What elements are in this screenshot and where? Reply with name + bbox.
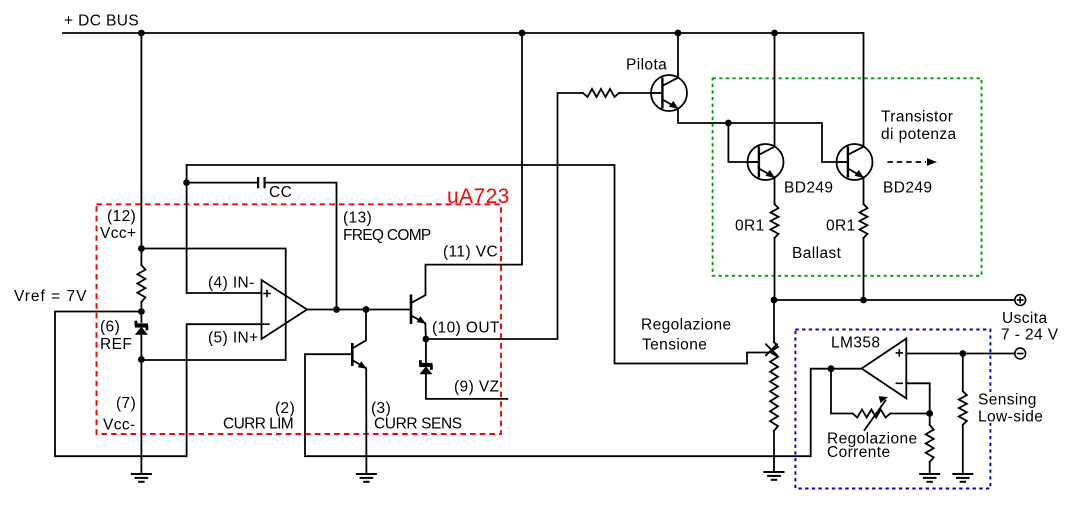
wire Vcc+ node loop right	[141, 249, 285, 361]
svg-text:Low-side: Low-side	[978, 409, 1043, 426]
zener diode REF (pin 6)	[135, 321, 148, 335]
svg-text:Vcc-: Vcc-	[103, 417, 136, 434]
svg-text:Regolazione: Regolazione	[641, 317, 732, 334]
resistor Sensing Low-side	[959, 391, 967, 425]
wire CC cap left lead	[187, 182, 259, 184]
wire Q1 collector to VC pin 11 and bus	[426, 33, 523, 295]
svg-text:Ballast: Ballast	[792, 245, 842, 262]
op-amp U2 LM358	[862, 339, 907, 399]
svg-text:Transistor: Transistor	[881, 109, 953, 126]
svg-text:0R1: 0R1	[826, 218, 856, 235]
ground below current pot resistor	[919, 474, 940, 482]
svg-text:REF: REF	[100, 336, 132, 353]
terminal Uscita +	[1015, 295, 1026, 306]
svg-text:CURR LIM: CURR LIM	[223, 416, 293, 433]
svg-text:(12): (12)	[107, 208, 136, 225]
wire VZ zener to pin 9 stub	[426, 375, 508, 399]
label Sensing Low-side	[974, 392, 1042, 406]
svg-text:uA723: uA723	[447, 185, 510, 208]
wire branch to BD249 no.1 base	[728, 123, 759, 162]
wire pot node down to resistor	[929, 414, 931, 426]
wire Vcc+ column from bus to resistor	[140, 33, 142, 265]
wire ballast no.2 to output rail	[863, 238, 865, 300]
svg-text:FREQ COMP: FREQ COMP	[343, 227, 431, 244]
wire OUT node down to VZ zener	[425, 339, 427, 362]
wire IN- top run to output sense	[187, 165, 769, 364]
svg-text:Uscita: Uscita	[1002, 310, 1047, 327]
svg-text:Vref = 7V: Vref = 7V	[14, 288, 87, 305]
wire resistor to ground	[929, 462, 931, 474]
terminal Uscita -	[1015, 348, 1026, 359]
node junction dots	[138, 30, 966, 417]
wire CURR LIM base to bottom rail	[305, 354, 811, 456]
svg-text:0R1: 0R1	[735, 218, 765, 235]
wire output rail to + terminal	[774, 299, 1015, 301]
svg-text:Pilota: Pilota	[626, 57, 667, 74]
Ballast power-transistor boundary box (green dashed)	[713, 78, 982, 275]
wire output divider upper	[773, 300, 775, 342]
resistor Regolazione Corrente pot	[853, 410, 891, 418]
svg-text:(11) VC: (11) VC	[443, 244, 498, 261]
wire Q1 emitter to OUT node	[424, 323, 427, 339]
wire REF zener down to ground	[140, 335, 142, 474]
transistor Pilota driver	[651, 75, 687, 111]
svg-text:(10) OUT: (10) OUT	[432, 320, 500, 337]
dashed arrow transistor di potenza	[887, 161, 926, 163]
wire ballast no.1 to output rail	[774, 238, 776, 300]
ground below sensing resistor	[952, 474, 973, 482]
svg-text:(6): (6)	[100, 319, 120, 336]
pot tap X marker	[766, 344, 777, 355]
wire LM358 feedback down to pot	[831, 369, 853, 414]
wire IN+ (pin 5) vertical and to op-amp	[187, 324, 262, 456]
wire LM358 + input to sensing node and - terminal	[906, 353, 1014, 355]
ground below CURR SENS emitter	[356, 474, 377, 482]
resistor from Vcc+ to Vref node	[137, 265, 145, 302]
resistor 0R1 ballast no.1	[771, 204, 779, 238]
uA723 IC boundary box (red dashed)	[97, 204, 502, 434]
wire + DC BUS horizontal rail	[63, 32, 864, 34]
wire op-amp output to pass transistor base	[307, 309, 411, 311]
svg-text:CURR SENS: CURR SENS	[374, 416, 462, 433]
wire bus end down to BD249 no.2 collector	[863, 33, 865, 147]
capacitor CC (pin 13 freq comp)	[258, 177, 265, 188]
ground below voltage divider	[764, 472, 785, 480]
svg-text:(9) VZ: (9) VZ	[454, 379, 499, 396]
wire Pilota emitter rail to BD249 bases	[678, 109, 848, 163]
svg-text:Corrente: Corrente	[827, 444, 891, 461]
svg-text:LM358: LM358	[831, 335, 880, 352]
transistor Q2 current limit (pins 2/3)	[352, 340, 367, 369]
wire CC cap right lead down to op-amp output	[265, 183, 337, 310]
svg-text:(3): (3)	[371, 400, 391, 417]
wire LM358 output to bottom rail	[811, 369, 862, 457]
svg-text:Vcc+: Vcc+	[100, 225, 137, 242]
transistor Q1 output pass (pins 11/10)	[411, 295, 426, 325]
svg-text:+ DC BUS: + DC BUS	[64, 13, 139, 30]
svg-text:di potenza: di potenza	[881, 126, 957, 143]
LM358 current-limit boundary box (blue dashed)	[795, 330, 990, 489]
wire OUT node to pilot driver resistor	[426, 93, 583, 339]
resistor 0R1 ballast no.2	[860, 204, 868, 238]
ground below Vcc- column	[131, 474, 152, 482]
resistor below current pot	[926, 425, 934, 462]
wire Q2 emitter to ground	[365, 368, 367, 473]
svg-text:7 - 24 V: 7 - 24 V	[1001, 327, 1059, 344]
wire IN- (pin 4) net: CC corner down to + input	[187, 165, 262, 293]
wire sensing resistor to ground	[962, 425, 964, 474]
svg-text:(4) IN-: (4) IN-	[208, 275, 255, 292]
resistor pilot base drive	[583, 89, 619, 97]
svg-text:BD249: BD249	[784, 180, 833, 197]
wire Q2 collector to op-amp output	[365, 310, 367, 341]
wire BD249 no.1 emitter to ballast resistor	[774, 178, 776, 205]
svg-text:Sensing: Sensing	[978, 392, 1037, 409]
wire Pilota collector to bus	[677, 33, 679, 78]
svg-text:(13): (13)	[343, 210, 372, 227]
wire LM358 - input to pot	[906, 383, 929, 413]
svg-text:Tensione: Tensione	[642, 337, 707, 354]
resistor Regolazione Tensione divider	[770, 342, 778, 431]
op-amp U1 error amplifier (uA723)	[262, 280, 308, 339]
svg-text:(7): (7)	[116, 395, 136, 412]
wire Vref node to zener	[140, 302, 142, 322]
zener diode VZ (pin 9)	[419, 360, 432, 374]
svg-text:(2): (2)	[275, 400, 295, 417]
svg-text:(5) IN+: (5) IN+	[208, 330, 259, 347]
wire divider bottom to ground	[773, 431, 775, 472]
wire BD249 no.1 collector to bus	[774, 33, 776, 147]
pot arrow Regolazione Corrente	[865, 401, 886, 431]
wire pot to right node	[890, 413, 930, 415]
transistor BD249 no.1	[748, 144, 784, 180]
wire resistor to Pilota base	[619, 92, 662, 94]
transistor BD249 no.2	[837, 144, 873, 180]
svg-text:BD249: BD249	[883, 180, 932, 197]
svg-text:CC: CC	[269, 184, 292, 201]
wire sensing node down to resistor	[962, 354, 964, 392]
wire Vref tap to left	[55, 312, 187, 457]
wire BD249 no.2 emitter to ballast resistor	[863, 178, 865, 205]
